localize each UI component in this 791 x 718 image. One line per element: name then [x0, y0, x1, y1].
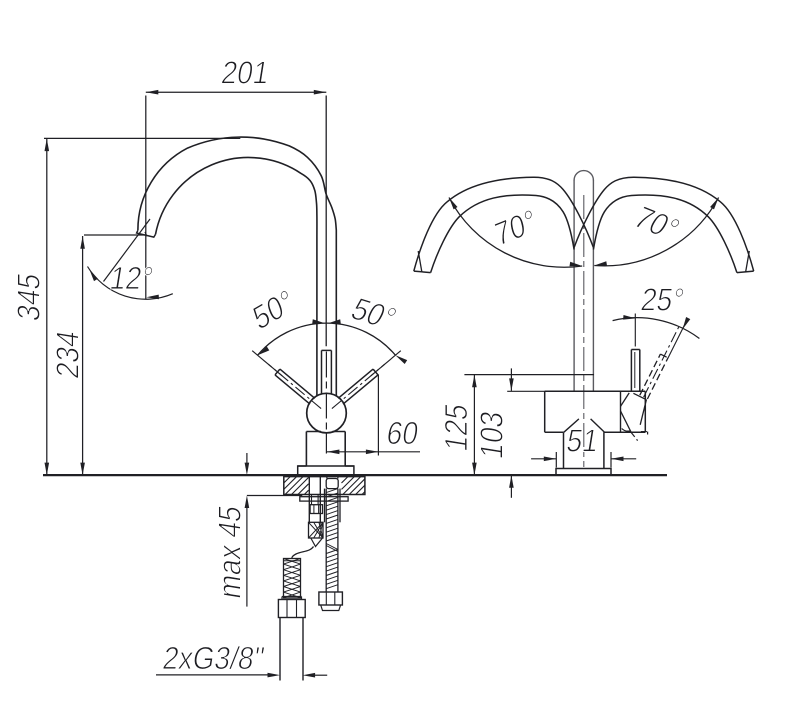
svg-text:25°: 25°	[638, 283, 686, 318]
svg-text:50°: 50°	[249, 283, 298, 337]
svg-text:50°: 50°	[345, 292, 401, 336]
svg-text:max 45: max 45	[213, 503, 248, 601]
svg-text:60: 60	[384, 417, 421, 452]
svg-text:125: 125	[439, 401, 474, 453]
svg-text:12°: 12°	[107, 262, 155, 297]
svg-text:70°: 70°	[628, 201, 686, 247]
svg-text:51: 51	[564, 424, 601, 459]
svg-text:201: 201	[219, 56, 272, 91]
svg-text:2xG3/8": 2xG3/8"	[160, 642, 266, 677]
svg-text:345: 345	[12, 271, 47, 323]
svg-text:70°: 70°	[492, 203, 539, 253]
svg-text:234: 234	[51, 328, 86, 380]
svg-text:103: 103	[475, 409, 510, 461]
